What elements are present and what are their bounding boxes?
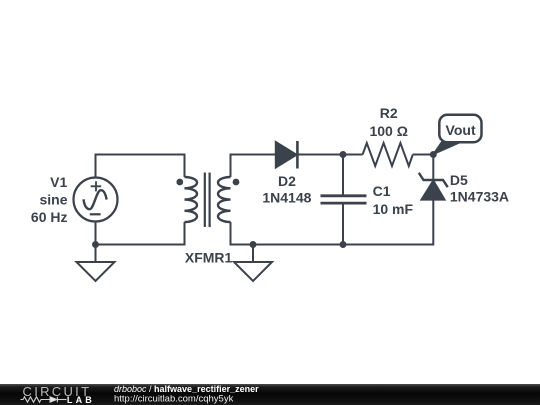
wire node B to D5 cathode xyxy=(432,155,434,181)
wire secondary top (XFMR1 to D2 anode) xyxy=(231,155,276,178)
wire node A to C1 top plate xyxy=(342,155,344,196)
svg-text:60 Hz: 60 Hz xyxy=(31,209,68,225)
ground GND1 xyxy=(77,245,115,282)
diode D2 xyxy=(276,141,298,169)
transformer XFMR1 core xyxy=(205,173,210,228)
label C1 10 mF xyxy=(373,183,414,217)
transformer XFMR1 phase dot primary xyxy=(176,179,183,186)
wire node A to R2 xyxy=(343,154,363,156)
label V1 sine 60 Hz xyxy=(31,174,68,225)
net flag Vout xyxy=(433,115,481,155)
junction dot secondary ground node xyxy=(250,241,257,248)
junction dot left ground node xyxy=(92,241,99,248)
svg-text:http://circuitlab.com/cqhy5yk: http://circuitlab.com/cqhy5yk xyxy=(114,394,234,405)
svg-text:C1: C1 xyxy=(373,183,391,199)
wire V1 bottom to ground node xyxy=(95,222,97,245)
svg-text:Vout: Vout xyxy=(446,122,476,138)
svg-text:drboboc / halfwave_rectifier_z: drboboc / halfwave_rectifier_zener xyxy=(114,384,259,394)
transformer XFMR1 secondary coil xyxy=(218,177,231,222)
svg-text:D5: D5 xyxy=(450,172,468,188)
svg-text:LAB: LAB xyxy=(67,395,95,405)
junction node B (R2/D5/Vout) xyxy=(430,151,437,158)
footer bar xyxy=(0,384,540,405)
wire secondary bottom rail (XFMR1 to C1 bottom node) xyxy=(231,222,344,245)
svg-text:100 Ω: 100 Ω xyxy=(369,123,407,139)
label D5 1N4733A xyxy=(450,172,509,204)
wire top-left rail (V1 top to XFMR1 primary top) xyxy=(96,155,185,178)
ground GND2 xyxy=(234,245,272,282)
label R2 100 ohm xyxy=(369,105,407,139)
svg-text:1N4148: 1N4148 xyxy=(262,190,311,206)
svg-text:V1: V1 xyxy=(50,174,67,190)
transformer XFMR1 primary coil xyxy=(185,177,197,222)
CircuitLab logo resistor-diode glyph xyxy=(21,397,67,403)
transformer XFMR1 phase dot secondary xyxy=(233,179,240,186)
junction node A (D2/C1/R2) xyxy=(340,151,347,158)
svg-text:D2: D2 xyxy=(278,173,296,189)
svg-text:10 mF: 10 mF xyxy=(373,201,414,217)
junction node C1 bottom xyxy=(340,241,347,248)
svg-text:1N4733A: 1N4733A xyxy=(450,189,509,205)
wire R2 to node B xyxy=(413,154,434,156)
svg-text:R2: R2 xyxy=(380,105,398,121)
voltage source V1 xyxy=(74,178,118,222)
svg-text:sine: sine xyxy=(39,192,67,208)
wire C1 bottom plate to bottom rail xyxy=(342,203,344,244)
resistor R2 xyxy=(363,143,413,166)
svg-text:XFMR1: XFMR1 xyxy=(185,249,233,265)
wire D2 cathode to node A xyxy=(297,154,343,156)
capacitor C1 xyxy=(321,196,367,203)
zener diode D5 xyxy=(419,173,448,200)
wire bottom-left rail (ground node to XFMR1 primary bottom) xyxy=(96,222,185,245)
wire D5 anode to bottom rail xyxy=(343,200,433,245)
label D2 1N4148 xyxy=(262,173,311,206)
